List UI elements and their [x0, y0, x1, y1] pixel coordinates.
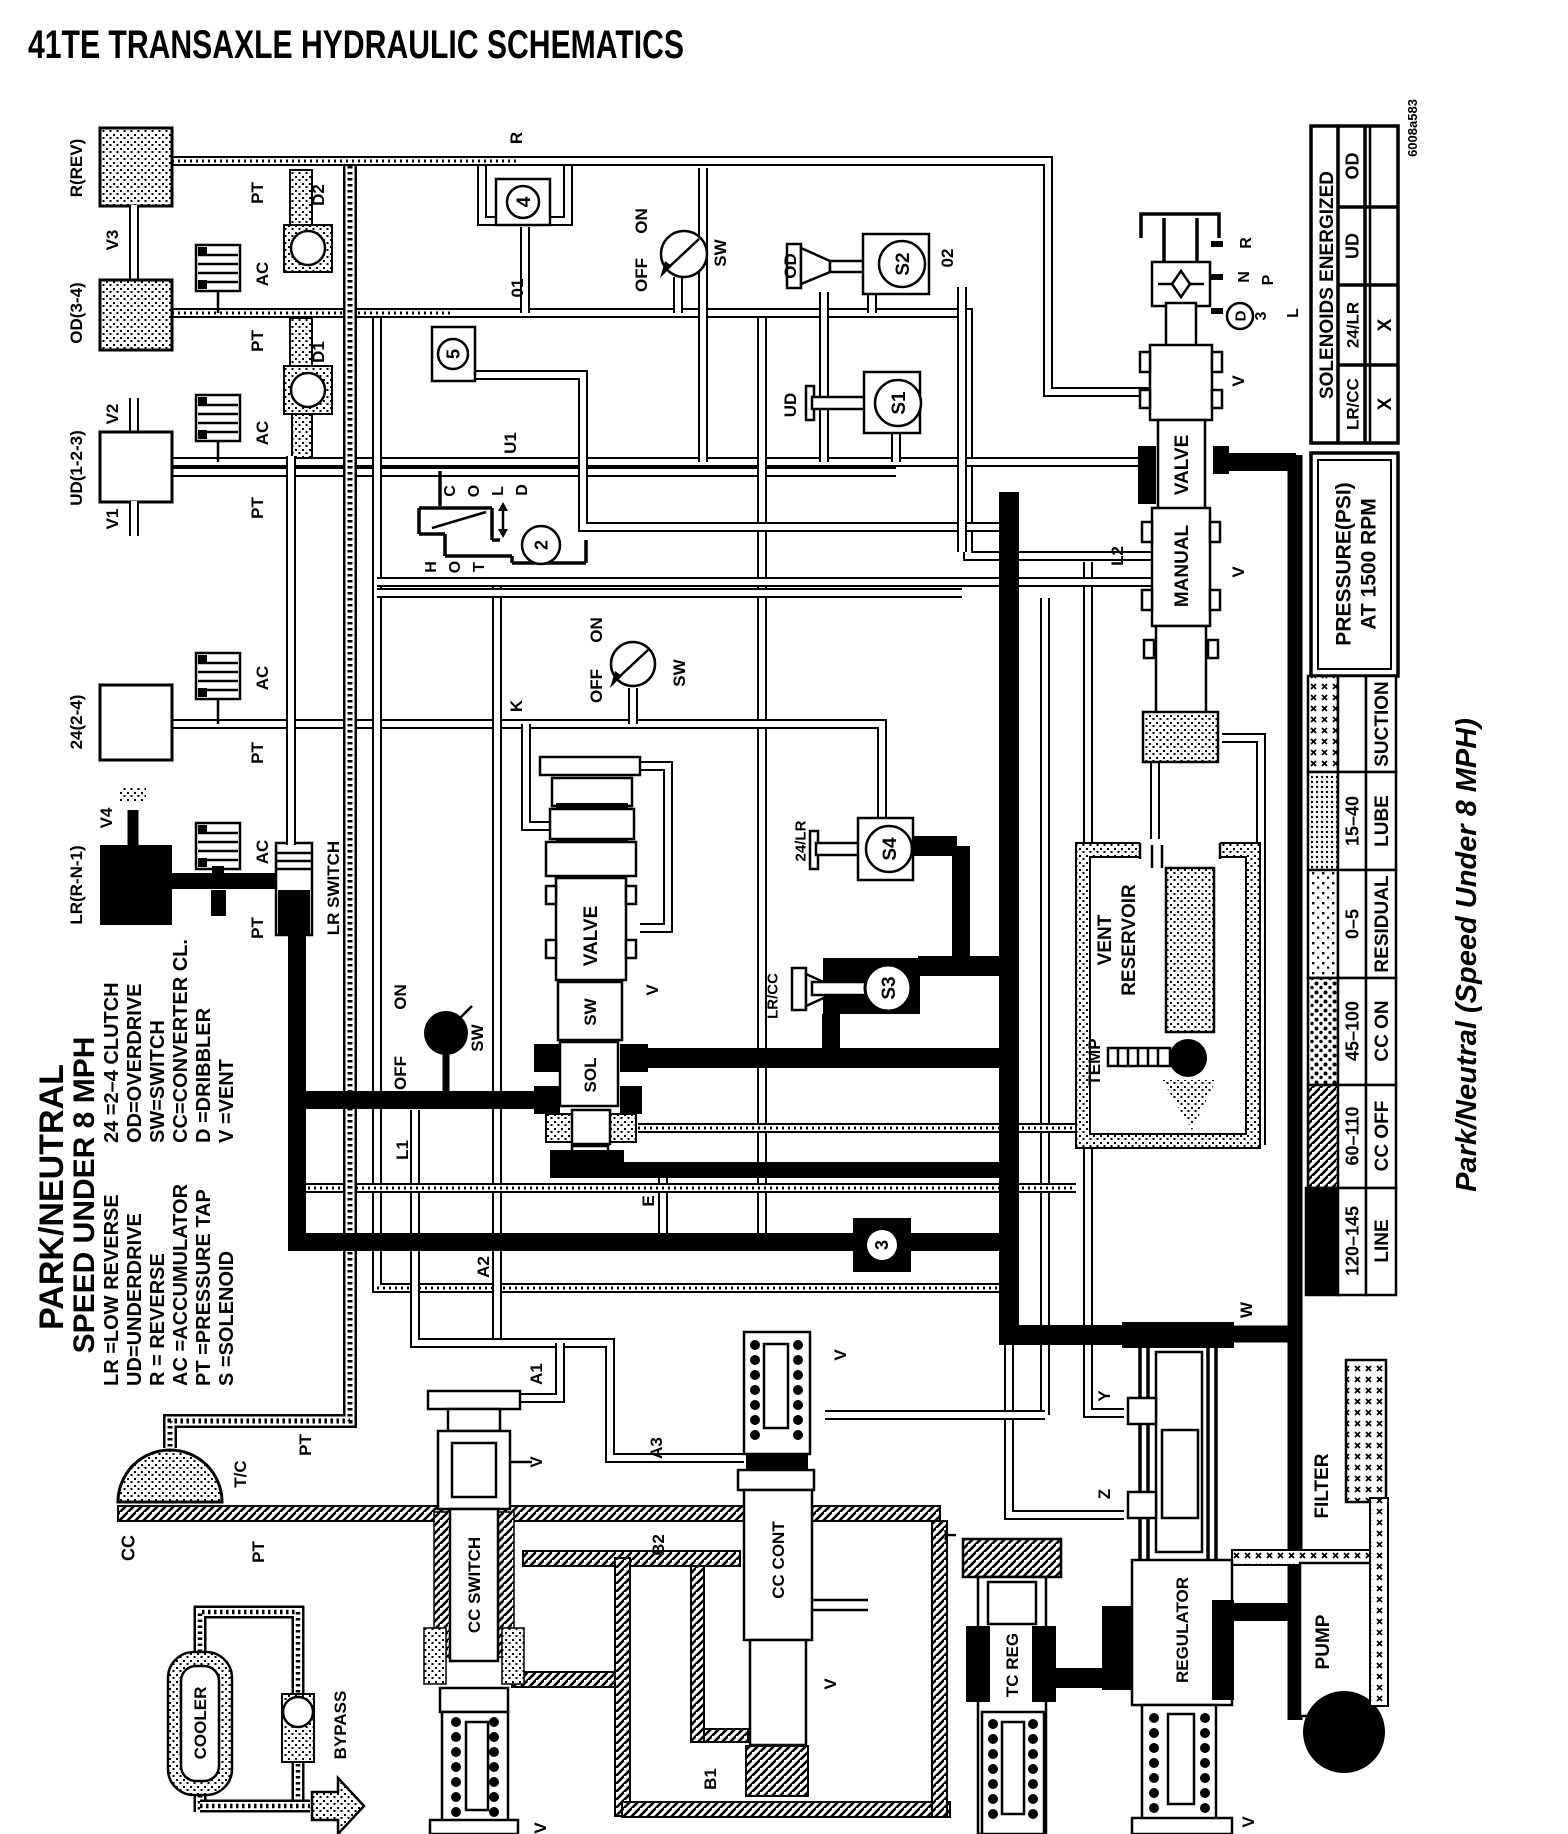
svg-text:D =DRIBBLER: D =DRIBBLER: [193, 1007, 215, 1143]
svg-text:A2: A2: [474, 1256, 493, 1278]
svg-text:S2: S2: [893, 252, 914, 275]
svg-text:V: V: [1229, 566, 1248, 578]
svg-text:CC SWITCH: CC SWITCH: [465, 1537, 484, 1633]
svg-text:L1: L1: [393, 1140, 412, 1160]
svg-text:COOLER: COOLER: [191, 1687, 210, 1760]
svg-text:OD=OVERDRIVE: OD=OVERDRIVE: [124, 984, 146, 1143]
svg-text:AC: AC: [253, 262, 272, 287]
svg-text:LR =LOW REVERSE: LR =LOW REVERSE: [101, 1194, 123, 1386]
svg-text:V =VENT: V =VENT: [216, 1059, 238, 1143]
svg-text:O: O: [447, 561, 464, 573]
svg-text:2: 2: [532, 540, 552, 550]
svg-text:O: O: [466, 485, 483, 497]
svg-text:A3: A3: [647, 1437, 666, 1459]
svg-text:PT: PT: [248, 742, 267, 764]
svg-text:PARK/NEUTRAL: PARK/NEUTRAL: [33, 1064, 71, 1330]
svg-text:V3: V3: [103, 230, 122, 251]
svg-text:5: 5: [444, 349, 464, 359]
svg-text:R: R: [507, 132, 526, 144]
svg-text:V: V: [1239, 1816, 1258, 1828]
svg-text:V1: V1: [103, 509, 122, 530]
svg-text:UD(1-2-3): UD(1-2-3): [67, 430, 86, 506]
svg-text:24/LR: 24/LR: [793, 820, 810, 861]
svg-text:LR SWITCH: LR SWITCH: [324, 841, 343, 935]
svg-text:MANUAL: MANUAL: [1172, 524, 1193, 607]
svg-text:45–100: 45–100: [1343, 1001, 1363, 1061]
svg-text:RESIDUAL: RESIDUAL: [1372, 875, 1393, 973]
svg-text:L: L: [1285, 308, 1302, 318]
svg-text:LUBE: LUBE: [1372, 795, 1393, 847]
svg-text:Z: Z: [1095, 1489, 1114, 1499]
svg-text:D1: D1: [309, 341, 328, 363]
svg-text:PT: PT: [248, 497, 267, 519]
svg-text:B1: B1: [701, 1768, 720, 1790]
svg-text:120–145: 120–145: [1343, 1206, 1363, 1276]
svg-text:CC=CONVERTER CL.: CC=CONVERTER CL.: [170, 939, 192, 1143]
svg-text:SPEED UNDER 8 MPH: SPEED UNDER 8 MPH: [68, 1037, 101, 1354]
svg-text:RESERVOIR: RESERVOIR: [1119, 884, 1140, 996]
svg-text:Y: Y: [1095, 1390, 1114, 1402]
svg-text:D: D: [1233, 310, 1250, 321]
svg-text:OD: OD: [1343, 152, 1363, 179]
svg-text:UD=UNDERDRIVE: UD=UNDERDRIVE: [124, 1213, 146, 1386]
svg-text:LR/CC: LR/CC: [765, 973, 782, 1019]
svg-text:01: 01: [508, 279, 527, 298]
svg-text:ON: ON: [391, 984, 410, 1010]
svg-text:PRESSURE(PSI): PRESSURE(PSI): [1333, 482, 1356, 645]
svg-text:TEMP: TEMP: [1085, 1038, 1104, 1085]
svg-text:R(REV): R(REV): [67, 139, 86, 198]
svg-text:CC: CC: [119, 1535, 139, 1561]
svg-text:OFF: OFF: [632, 258, 651, 292]
svg-text:H: H: [423, 561, 440, 573]
svg-text:OD: OD: [781, 253, 800, 279]
svg-text:SUCTION: SUCTION: [1372, 681, 1393, 767]
svg-text:U1: U1: [501, 432, 520, 454]
svg-text:N: N: [1236, 271, 1253, 283]
svg-text:S4: S4: [880, 837, 901, 861]
svg-text:AC: AC: [253, 421, 272, 446]
svg-text:P: P: [1260, 274, 1277, 285]
svg-text:S =SOLENOID: S =SOLENOID: [216, 1251, 238, 1386]
svg-text:OFF: OFF: [391, 1056, 410, 1090]
svg-text:CC CONT: CC CONT: [769, 1521, 788, 1599]
svg-text:Park/Neutral (Speed Under 8 MP: Park/Neutral (Speed Under 8 MPH): [1451, 718, 1483, 1192]
svg-text:CC OFF: CC OFF: [1372, 1101, 1393, 1172]
svg-text:L: L: [490, 486, 507, 496]
svg-text:SW: SW: [581, 997, 600, 1025]
svg-text:SW: SW: [711, 238, 730, 266]
svg-text:PT: PT: [248, 330, 267, 352]
svg-text:24(2-4): 24(2-4): [67, 695, 86, 750]
svg-text:SW=SWITCH: SW=SWITCH: [147, 1020, 169, 1143]
svg-text:D: D: [514, 484, 531, 496]
svg-text:6008a583: 6008a583: [1405, 99, 1420, 157]
svg-text:T/C: T/C: [231, 1460, 250, 1487]
svg-text:SOL: SOL: [581, 1058, 600, 1093]
svg-text:V: V: [643, 984, 662, 996]
svg-text:ON: ON: [587, 617, 606, 643]
svg-text:15–40: 15–40: [1343, 796, 1363, 846]
svg-text:E: E: [639, 1195, 658, 1206]
svg-text:S1: S1: [889, 391, 910, 415]
svg-text:UD: UD: [781, 393, 800, 418]
svg-text:S3: S3: [879, 976, 900, 999]
svg-text:K: K: [507, 699, 526, 712]
svg-text:0–5: 0–5: [1343, 909, 1363, 939]
svg-text:60–110: 60–110: [1343, 1106, 1363, 1165]
svg-text:SW: SW: [670, 658, 689, 686]
svg-text:24 =2–4 CLUTCH: 24 =2–4 CLUTCH: [101, 982, 123, 1143]
svg-text:VALVE: VALVE: [1172, 435, 1193, 496]
svg-text:W: W: [1237, 1301, 1256, 1318]
svg-text:R = REVERSE: R = REVERSE: [147, 1253, 169, 1386]
svg-text:LINE: LINE: [1372, 1219, 1393, 1262]
svg-text:PT: PT: [296, 1434, 315, 1456]
svg-text:LR/CC: LR/CC: [1344, 378, 1363, 430]
svg-text:CC ON: CC ON: [1372, 1000, 1393, 1061]
svg-text:PT: PT: [248, 182, 267, 204]
svg-text:PT: PT: [248, 917, 267, 939]
svg-text:VALVE: VALVE: [581, 906, 602, 967]
svg-text:B2: B2: [649, 1534, 668, 1556]
svg-text:V: V: [831, 1349, 850, 1361]
svg-text:X: X: [1375, 397, 1396, 410]
svg-text:T: T: [941, 1529, 960, 1540]
svg-text:PT: PT: [249, 1541, 268, 1563]
svg-text:D2: D2: [309, 184, 328, 206]
svg-text:R: R: [1238, 237, 1255, 249]
svg-text:SOLENOIDS ENERGIZED: SOLENOIDS ENERGIZED: [1317, 171, 1338, 399]
svg-text:UD: UD: [1343, 233, 1363, 259]
svg-text:3: 3: [872, 1240, 892, 1250]
svg-text:V4: V4: [97, 807, 116, 828]
svg-text:AC =ACCUMULATOR: AC =ACCUMULATOR: [170, 1183, 192, 1386]
svg-text:L2: L2: [1108, 546, 1127, 566]
svg-text:V: V: [527, 1456, 546, 1468]
svg-text:C: C: [442, 485, 459, 497]
svg-text:ON: ON: [632, 208, 651, 234]
svg-text:24/LR: 24/LR: [1344, 302, 1363, 348]
svg-text:02: 02: [938, 249, 957, 268]
svg-text:V: V: [531, 1822, 550, 1834]
svg-text:V: V: [821, 1678, 840, 1690]
svg-text:BYPASS: BYPASS: [331, 1691, 350, 1760]
svg-text:TC REG: TC REG: [1003, 1633, 1022, 1697]
svg-text:X: X: [1375, 318, 1396, 331]
svg-text:PUMP: PUMP: [1313, 1614, 1334, 1669]
svg-text:OD(3-4): OD(3-4): [67, 282, 86, 343]
svg-text:PT =PRESSURE TAP: PT =PRESSURE TAP: [193, 1189, 215, 1386]
svg-text:T: T: [471, 562, 488, 572]
svg-text:REGULATOR: REGULATOR: [1173, 1577, 1192, 1683]
svg-text:AC: AC: [253, 840, 272, 865]
svg-text:AT 1500 RPM: AT 1500 RPM: [1358, 498, 1381, 630]
svg-text:VENT: VENT: [1095, 914, 1116, 965]
svg-text:4: 4: [514, 196, 535, 207]
svg-text:SW: SW: [468, 1023, 487, 1051]
svg-text:FILTER: FILTER: [1312, 1453, 1333, 1518]
svg-text:V: V: [1229, 375, 1248, 387]
svg-text:3: 3: [1253, 311, 1270, 320]
svg-text:LR(R-N-1): LR(R-N-1): [67, 845, 86, 924]
svg-text:V2: V2: [103, 404, 122, 425]
svg-text:41TE TRANSAXLE HYDRAULIC SCHEM: 41TE TRANSAXLE HYDRAULIC SCHEMATICS: [28, 23, 684, 67]
svg-text:OFF: OFF: [587, 669, 606, 703]
svg-text:AC: AC: [253, 666, 272, 691]
svg-text:A1: A1: [527, 1363, 546, 1385]
